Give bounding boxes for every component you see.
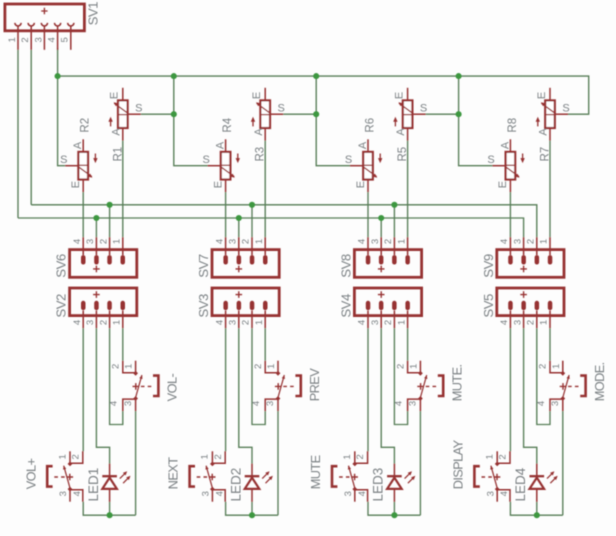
svg-text:1: 1	[254, 320, 265, 325]
junction LED1 cathode / bottom rail	[107, 512, 113, 518]
svg-text:3: 3	[201, 491, 212, 496]
wire SV5 pin4 to switch DISPLAY pin2	[509, 328, 511, 451]
connector SV3	[196, 288, 279, 328]
wire upper rail drop to SV7 pin2	[251, 205, 253, 237]
svg-text:1: 1	[396, 239, 407, 244]
wire switch VOL- pin3 down to bottom rail	[135, 411, 137, 515]
wire SV4 pin1 to switch MUTE. pin2	[407, 328, 409, 361]
svg-text:MODE.: MODE.	[592, 362, 607, 401]
svg-text:4: 4	[47, 37, 58, 42]
wire upper rail drop to SV8 pin2	[393, 205, 395, 237]
svg-text:A: A	[110, 128, 122, 136]
svg-text:4: 4	[251, 401, 262, 406]
svg-text:4: 4	[499, 320, 510, 325]
wire SV3 pin3 to LED2 anode	[239, 328, 252, 463]
svg-text:A: A	[72, 141, 84, 149]
svg-text:2: 2	[526, 320, 537, 325]
connector SV5	[481, 288, 564, 328]
svg-text:3: 3	[408, 401, 419, 406]
wire upper rail drop to SV6 pin2	[109, 205, 111, 237]
trimmer potentiometer R6	[345, 118, 382, 192]
junction LED4 cathode / bottom rail	[534, 512, 540, 518]
svg-text:1: 1	[408, 364, 419, 369]
wire R8 to SV9 pin4	[509, 192, 511, 237]
svg-text:2: 2	[98, 320, 109, 325]
LED LED3	[371, 464, 416, 502]
wire lower rail drop to SV7 pin3	[238, 218, 240, 237]
wire R1 wiper to feed junction	[141, 113, 174, 115]
wire SV2 pin2 to switch VOL- pin4	[110, 328, 123, 424]
svg-text:1: 1	[254, 239, 265, 244]
connector SV8	[338, 237, 421, 278]
wire LED3 cathode to bottom rail	[393, 502, 395, 515]
svg-text:E: E	[251, 92, 263, 99]
svg-text:4: 4	[357, 320, 368, 325]
wire R2 to SV6 pin4	[82, 192, 84, 237]
svg-text:1: 1	[200, 454, 211, 459]
svg-text:1: 1	[551, 364, 562, 369]
svg-text:3: 3	[85, 320, 96, 325]
svg-text:R1: R1	[112, 147, 124, 162]
wire R1 to SV6 pin1	[122, 141, 124, 238]
svg-text:S: S	[562, 102, 569, 114]
wire SV2 pin4 to switch VOL+ pin2	[82, 328, 84, 451]
svg-text:SV7: SV7	[196, 254, 211, 278]
svg-text:E: E	[497, 181, 509, 188]
svg-text:3: 3	[512, 239, 523, 244]
trimmer potentiometer R7	[536, 88, 570, 162]
junction upper rail / SV8 pin2 drop	[391, 202, 397, 208]
junction top rail / feed column 2	[171, 73, 177, 79]
wire LED1 cathode to bottom rail	[109, 502, 111, 515]
svg-text:E: E	[70, 181, 82, 188]
junction R3 wiper / feed column 3	[313, 111, 319, 117]
wire feed column 2 (top rail to R4 wiper)	[174, 76, 208, 166]
junction R5 wiper / feed column 4	[456, 111, 462, 117]
svg-text:3: 3	[85, 239, 96, 244]
svg-text:A: A	[395, 128, 407, 136]
junction LED3 cathode / bottom rail	[391, 512, 397, 518]
connector SV1	[5, 2, 101, 50]
svg-text:R6: R6	[365, 118, 377, 133]
svg-text:S: S	[420, 102, 427, 114]
trimmer potentiometer R4	[203, 117, 240, 192]
wire top rail	[58, 76, 589, 114]
svg-text:SV4: SV4	[338, 294, 353, 318]
pushbutton switch MUTE	[308, 451, 368, 501]
wire switch MUTE. pin3 down to bottom rail	[419, 411, 421, 515]
svg-text:2: 2	[70, 454, 81, 459]
svg-text:R5: R5	[397, 147, 409, 162]
svg-text:A: A	[215, 141, 227, 149]
wire SV3 pin4 to switch NEXT pin2	[225, 328, 227, 451]
svg-text:3: 3	[512, 320, 523, 325]
svg-text:3: 3	[33, 37, 44, 42]
wire SV5 pin2 to switch MODE. pin4	[537, 328, 550, 424]
svg-text:2: 2	[538, 364, 549, 369]
svg-text:LED4: LED4	[513, 467, 528, 501]
wire R4 to SV7 pin4	[225, 192, 227, 237]
wire SV1 pin1 to lower rail	[17, 50, 19, 218]
svg-text:1: 1	[539, 320, 550, 325]
wire SV4 pin4 to switch MUTE pin2	[367, 328, 369, 451]
LED LED4	[513, 464, 558, 502]
wire SV4 pin3 to LED3 anode	[381, 328, 394, 463]
svg-text:1: 1	[485, 454, 496, 459]
svg-text:3: 3	[485, 491, 496, 496]
wire bottom rail column 4	[510, 502, 562, 516]
wire LED2 cathode to bottom rail	[251, 502, 253, 515]
junction SV1 pin4 / top rail	[55, 73, 61, 79]
svg-text:2: 2	[111, 364, 122, 369]
trimmer potentiometer R2	[60, 118, 97, 192]
svg-text:E: E	[212, 181, 224, 188]
svg-text:3: 3	[265, 401, 276, 406]
junction upper rail / SV6 pin2 drop	[107, 202, 113, 208]
svg-text:3: 3	[123, 401, 134, 406]
wire SV3 pin1 to switch PREV pin2	[264, 328, 266, 361]
svg-text:R3: R3	[255, 147, 267, 162]
svg-text:PREV: PREV	[307, 368, 322, 402]
svg-text:4: 4	[109, 401, 120, 406]
svg-text:SV3: SV3	[196, 294, 211, 318]
svg-text:A: A	[253, 128, 265, 136]
svg-text:4: 4	[357, 491, 368, 496]
trimmer potentiometer R3	[251, 88, 285, 162]
wire switch MODE. pin3 down to bottom rail	[562, 411, 564, 515]
svg-text:1: 1	[342, 454, 353, 459]
svg-text:4: 4	[499, 491, 510, 496]
svg-text:E: E	[355, 181, 367, 188]
wire bottom rail column 1	[83, 502, 135, 516]
wire R7 to SV9 pin1	[549, 141, 551, 238]
svg-text:1: 1	[112, 239, 123, 244]
svg-text:S: S	[60, 154, 67, 166]
svg-text:5: 5	[60, 37, 71, 42]
LED LED1	[86, 464, 131, 502]
svg-text:SV9: SV9	[481, 254, 496, 278]
svg-text:1: 1	[112, 320, 123, 325]
svg-text:S: S	[135, 102, 142, 114]
wire feed column 4 (top rail to R8 wiper)	[459, 76, 493, 166]
svg-text:3: 3	[370, 320, 381, 325]
junction LED2 cathode / bottom rail	[249, 512, 255, 518]
junction upper rail / SV7 pin2 drop	[249, 202, 255, 208]
junction lower rail / SV7 pin3 drop	[236, 215, 242, 221]
svg-text:1: 1	[7, 37, 18, 42]
trimmer potentiometer R5	[393, 88, 427, 162]
wire SV1 pin2 to upper rail	[30, 50, 32, 205]
connector SV9	[481, 237, 564, 278]
svg-text:2: 2	[253, 364, 264, 369]
svg-text:4: 4	[72, 320, 83, 325]
pushbutton switch DISPLAY	[451, 439, 511, 501]
svg-text:4: 4	[214, 491, 225, 496]
svg-text:1: 1	[57, 454, 68, 459]
wire feed column 3 (top rail to R6 wiper)	[316, 76, 350, 166]
wire bottom rail column 3	[368, 502, 420, 516]
wire SV2 pin3 to LED1 anode	[96, 328, 109, 463]
svg-text:4: 4	[72, 491, 83, 496]
wire R5 wiper to feed junction	[426, 113, 459, 115]
wire R3 to SV7 pin1	[264, 141, 266, 238]
svg-text:LED1: LED1	[86, 468, 101, 502]
svg-text:E: E	[393, 92, 405, 99]
svg-text:R4: R4	[222, 117, 234, 132]
svg-text:2: 2	[20, 37, 31, 42]
svg-text:SV5: SV5	[481, 294, 496, 318]
svg-text:A: A	[357, 141, 369, 149]
wire SV5 pin3 to LED4 anode	[524, 328, 537, 463]
svg-text:3: 3	[343, 491, 354, 496]
svg-text:R8: R8	[507, 118, 519, 133]
svg-text:3: 3	[370, 239, 381, 244]
svg-text:SV8: SV8	[338, 254, 353, 278]
svg-text:VOL+: VOL+	[23, 458, 38, 489]
svg-text:2: 2	[383, 320, 394, 325]
svg-text:E: E	[536, 92, 548, 99]
junction lower rail / SV6 pin3 drop	[93, 215, 99, 221]
svg-text:E: E	[109, 92, 121, 99]
svg-text:2: 2	[526, 239, 537, 244]
svg-text:1: 1	[124, 364, 135, 369]
pushbutton switch MODE.	[536, 361, 607, 411]
svg-text:3: 3	[228, 239, 239, 244]
svg-text:2: 2	[241, 320, 252, 325]
svg-text:2: 2	[213, 454, 224, 459]
pushbutton switch VOL-	[109, 361, 180, 411]
svg-text:2: 2	[498, 454, 509, 459]
svg-text:3: 3	[228, 320, 239, 325]
wire switch PREV pin3 down to bottom rail	[277, 411, 279, 515]
svg-text:MUTE.: MUTE.	[450, 364, 465, 401]
svg-text:4: 4	[536, 401, 547, 406]
svg-text:SV6: SV6	[54, 254, 69, 278]
svg-text:R2: R2	[80, 118, 92, 133]
wire R5 to SV8 pin1	[407, 141, 409, 238]
wire SV5 pin1 to switch MODE. pin2	[549, 328, 551, 361]
svg-text:1: 1	[396, 320, 407, 325]
wire lower rail drop to SV8 pin3	[380, 218, 382, 237]
svg-text:VOL-: VOL-	[165, 373, 180, 401]
svg-text:S: S	[278, 102, 285, 114]
wire upper rail (net to pin2 of SV6-SV9)	[31, 205, 537, 237]
pushbutton switch PREV	[251, 361, 322, 411]
wire lower rail drop to SV6 pin3	[95, 218, 97, 237]
svg-text:2: 2	[241, 239, 252, 244]
connector SV4	[338, 288, 421, 328]
connector SV2	[54, 288, 137, 328]
trimmer potentiometer R1	[108, 88, 142, 162]
svg-text:S: S	[203, 154, 210, 166]
wire SV1 pin4 down to R2 wiper	[58, 48, 66, 166]
wire R7 wiper stub to right loop	[567, 113, 569, 115]
svg-text:LED3: LED3	[371, 468, 386, 502]
pushbutton switch VOL+	[23, 451, 83, 501]
svg-text:NEXT: NEXT	[166, 457, 181, 490]
wire R6 to SV8 pin4	[367, 192, 369, 237]
trimmer potentiometer R8	[487, 118, 524, 192]
svg-text:4: 4	[72, 239, 83, 244]
junction lower rail / SV8 pin3 drop	[378, 215, 384, 221]
connector SV6	[54, 237, 137, 278]
wire R3 wiper to feed junction	[283, 113, 316, 115]
wire SV2 pin1 to switch VOL- pin2	[122, 328, 124, 361]
svg-text:A: A	[538, 128, 550, 136]
svg-text:1: 1	[539, 239, 550, 244]
svg-text:S: S	[345, 154, 352, 166]
svg-text:SV2: SV2	[54, 294, 69, 318]
svg-text:R7: R7	[540, 147, 552, 162]
wire SV3 pin2 to switch PREV pin4	[252, 328, 265, 424]
svg-text:1: 1	[266, 364, 277, 369]
svg-text:A: A	[499, 141, 511, 149]
svg-text:3: 3	[550, 401, 561, 406]
wire LED4 cathode to bottom rail	[536, 502, 538, 515]
svg-text:2: 2	[98, 239, 109, 244]
svg-text:4: 4	[499, 239, 510, 244]
svg-text:DISPLAY: DISPLAY	[451, 439, 466, 489]
svg-text:2: 2	[395, 364, 406, 369]
junction top rail / feed column 3	[313, 73, 319, 79]
pushbutton switch NEXT	[166, 451, 226, 501]
svg-text:4: 4	[214, 320, 225, 325]
svg-text:MUTE: MUTE	[308, 455, 323, 489]
junction top rail / feed column 4	[456, 73, 462, 79]
svg-text:2: 2	[383, 239, 394, 244]
wire SV4 pin2 to switch MUTE. pin4	[394, 328, 407, 424]
svg-text:4: 4	[214, 239, 225, 244]
junction R1 wiper / feed column 2	[171, 111, 177, 117]
connector SV7	[196, 237, 279, 278]
svg-text:SV1: SV1	[86, 2, 101, 26]
svg-text:4: 4	[357, 239, 368, 244]
wire bottom rail column 2	[226, 502, 278, 516]
svg-text:2: 2	[355, 454, 366, 459]
svg-text:S: S	[487, 154, 494, 166]
wire lower rail (net to pin3 of SV6-SV9)	[18, 218, 524, 237]
svg-text:3: 3	[58, 491, 69, 496]
LED LED2	[228, 464, 273, 502]
svg-text:LED2: LED2	[228, 468, 243, 502]
svg-text:4: 4	[393, 401, 404, 406]
pushbutton switch MUTE.	[393, 361, 464, 411]
